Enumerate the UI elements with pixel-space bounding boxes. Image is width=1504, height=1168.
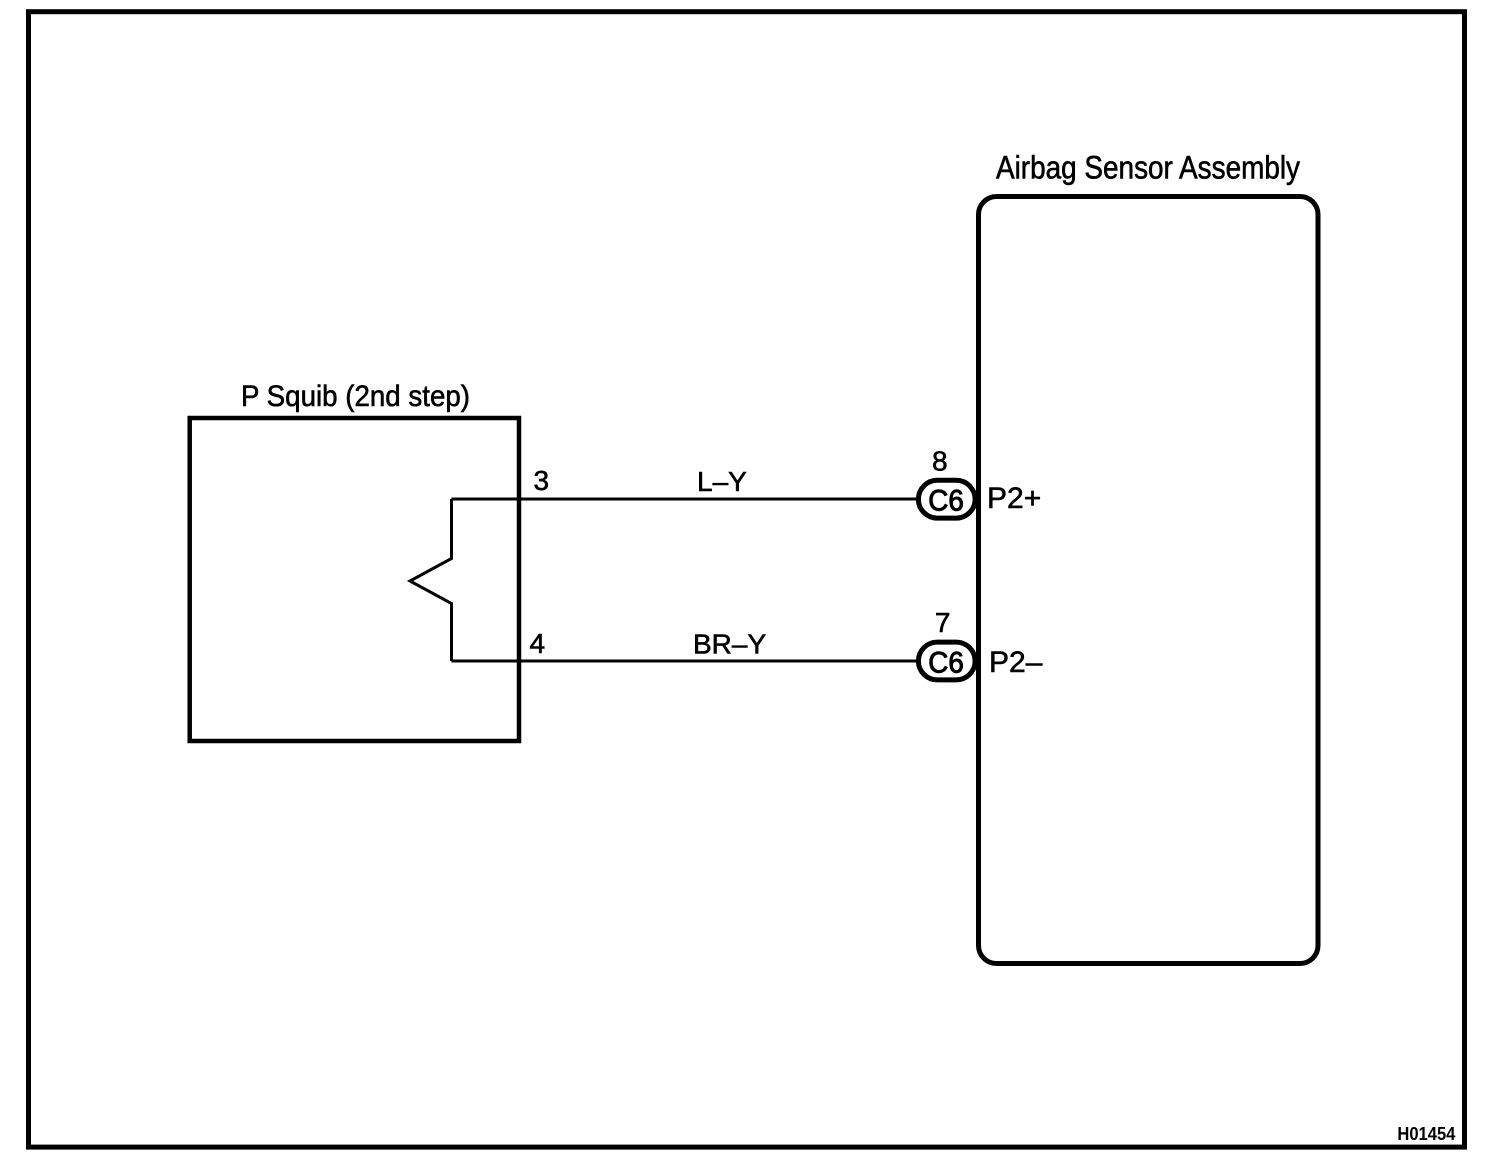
svg-text:7: 7: [935, 607, 951, 638]
svg-text:4: 4: [530, 628, 546, 659]
squib bridgewire chevron element inside P Squib: [410, 499, 452, 661]
svg-text:P2–: P2–: [989, 646, 1043, 679]
wire BR-Y: P Squib pin 4 to C6 pin 7: [452, 660, 918, 663]
svg-text:BR–Y: BR–Y: [693, 629, 766, 660]
svg-text:H01454: H01454: [1397, 1124, 1455, 1144]
svg-text:3: 3: [534, 465, 550, 496]
wire L-Y: P Squib pin 3 to C6 pin 8: [452, 498, 918, 501]
svg-text:C6: C6: [928, 646, 964, 679]
svg-text:8: 8: [932, 445, 948, 476]
connector C6 pin 8 oval: [918, 480, 975, 518]
svg-text:L–Y: L–Y: [697, 466, 747, 497]
svg-text:P Squib (2nd step): P Squib (2nd step): [241, 380, 470, 413]
svg-text:P2+: P2+: [987, 482, 1041, 515]
connector C6 pin 7 oval: [918, 642, 975, 680]
svg-text:C6: C6: [928, 485, 964, 518]
P Squib (2nd step) component box: [190, 418, 519, 741]
Airbag Sensor Assembly component box: [979, 197, 1319, 964]
svg-text:Airbag Sensor Assembly: Airbag Sensor Assembly: [996, 149, 1300, 185]
